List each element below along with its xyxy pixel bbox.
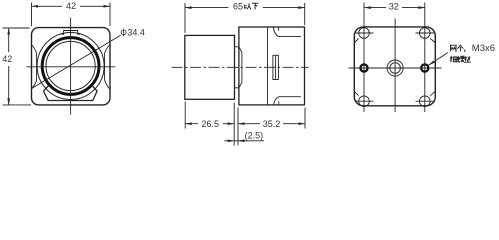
side view lens cylinder bbox=[185, 35, 235, 99]
svg-text:32: 32 bbox=[389, 2, 399, 12]
lens outer circle bbox=[37, 33, 104, 100]
dimension 35.2: dimension line bbox=[238, 123, 305, 125]
lens inner circle bbox=[46, 41, 95, 90]
dimension 26.5: extension lines bbox=[185, 102, 234, 146]
back view M3 hole right bbox=[421, 64, 428, 71]
svg-text:M3x6: M3x6 bbox=[472, 43, 495, 54]
phi34.4 diameter leader line bbox=[32, 35, 121, 88]
side view horizontal centerline bbox=[172, 66, 309, 68]
back view bolt line left bbox=[363, 3, 365, 113]
glyph YI of yixia bbox=[245, 3, 251, 9]
side view slot bbox=[273, 55, 279, 79]
svg-text:35.2: 35.2 bbox=[263, 119, 281, 129]
dimension 35.2: extension lines bbox=[238, 108, 305, 146]
svg-text:26.5: 26.5 bbox=[202, 119, 220, 129]
svg-text:(2.5): (2.5) bbox=[245, 130, 264, 140]
back view center connector outer bbox=[387, 60, 403, 76]
side view neck step top and bottom bbox=[235, 47, 239, 88]
glyph SI of silk/wire bbox=[464, 56, 471, 62]
screw note leader line bbox=[429, 53, 448, 66]
dimension (2.5): leader line bbox=[224, 140, 264, 142]
svg-text:42: 42 bbox=[66, 1, 76, 11]
dimension 65 top: extension lines bbox=[185, 3, 305, 33]
dimension 65 top: dimension line bbox=[185, 7, 305, 9]
front view body outline bbox=[32, 28, 111, 105]
dimension 32: dimension line bbox=[364, 7, 425, 9]
side view front bezel chamfer bbox=[239, 47, 242, 88]
fullwidth comma bbox=[464, 50, 466, 52]
svg-text:65: 65 bbox=[233, 1, 243, 11]
lens left bayonet lug bbox=[31, 45, 36, 90]
dimension 42 top: dimension line bbox=[32, 5, 111, 7]
side view rear bottom groove bbox=[274, 97, 301, 105]
svg-text:42: 42 bbox=[2, 54, 12, 64]
glyph XI of fine bbox=[450, 56, 457, 62]
side view rear top groove bbox=[273, 27, 301, 36]
back view horizontal centerline bbox=[349, 67, 442, 69]
glyph XIA of yixia bbox=[252, 3, 259, 9]
bottom hexagon plate bbox=[44, 86, 98, 101]
back view boss crosshair horizontals bbox=[355, 33, 435, 101]
dimension 42 left: extension lines bbox=[3, 28, 32, 105]
dimension symbol phi bbox=[121, 29, 126, 37]
lens barrel thick ring bbox=[42, 38, 99, 95]
lens top tab bbox=[62, 31, 80, 35]
CJK glyphs drawn as paths bbox=[245, 3, 471, 62]
side view body outline bbox=[239, 27, 305, 105]
back view center connector inner bbox=[390, 63, 401, 74]
front horizontal centerline bbox=[27, 66, 116, 68]
dimension 32: extension line segment above bbox=[364, 3, 425, 22]
back view vertical centerline bbox=[394, 19, 396, 113]
dimension 26.5: dimension line bbox=[185, 123, 234, 125]
phi34.4 arrowhead bbox=[94, 48, 100, 53]
dimension 42 top: extension lines bbox=[32, 3, 111, 27]
side view panel line bbox=[267, 27, 269, 105]
back view corner boss bottom-left bbox=[359, 96, 370, 107]
back view corner boss top-left bbox=[359, 28, 370, 39]
back view bolt line right bbox=[424, 3, 426, 113]
glyph LIANG of two bbox=[450, 45, 457, 51]
glyph LUO of screw bbox=[457, 56, 464, 62]
back view corner boss bottom-right bbox=[420, 96, 431, 107]
back view corner boss top-right bbox=[420, 28, 431, 39]
back view body outline bbox=[354, 27, 435, 106]
glyph GE of piece bbox=[457, 45, 463, 52]
dimension 42 left: dimension line bbox=[8, 28, 10, 105]
back view M3 hole left bbox=[360, 64, 367, 71]
front vertical centerline bbox=[70, 18, 72, 115]
svg-text:34.4: 34.4 bbox=[127, 27, 145, 37]
lens right bayonet lug bbox=[105, 45, 110, 90]
